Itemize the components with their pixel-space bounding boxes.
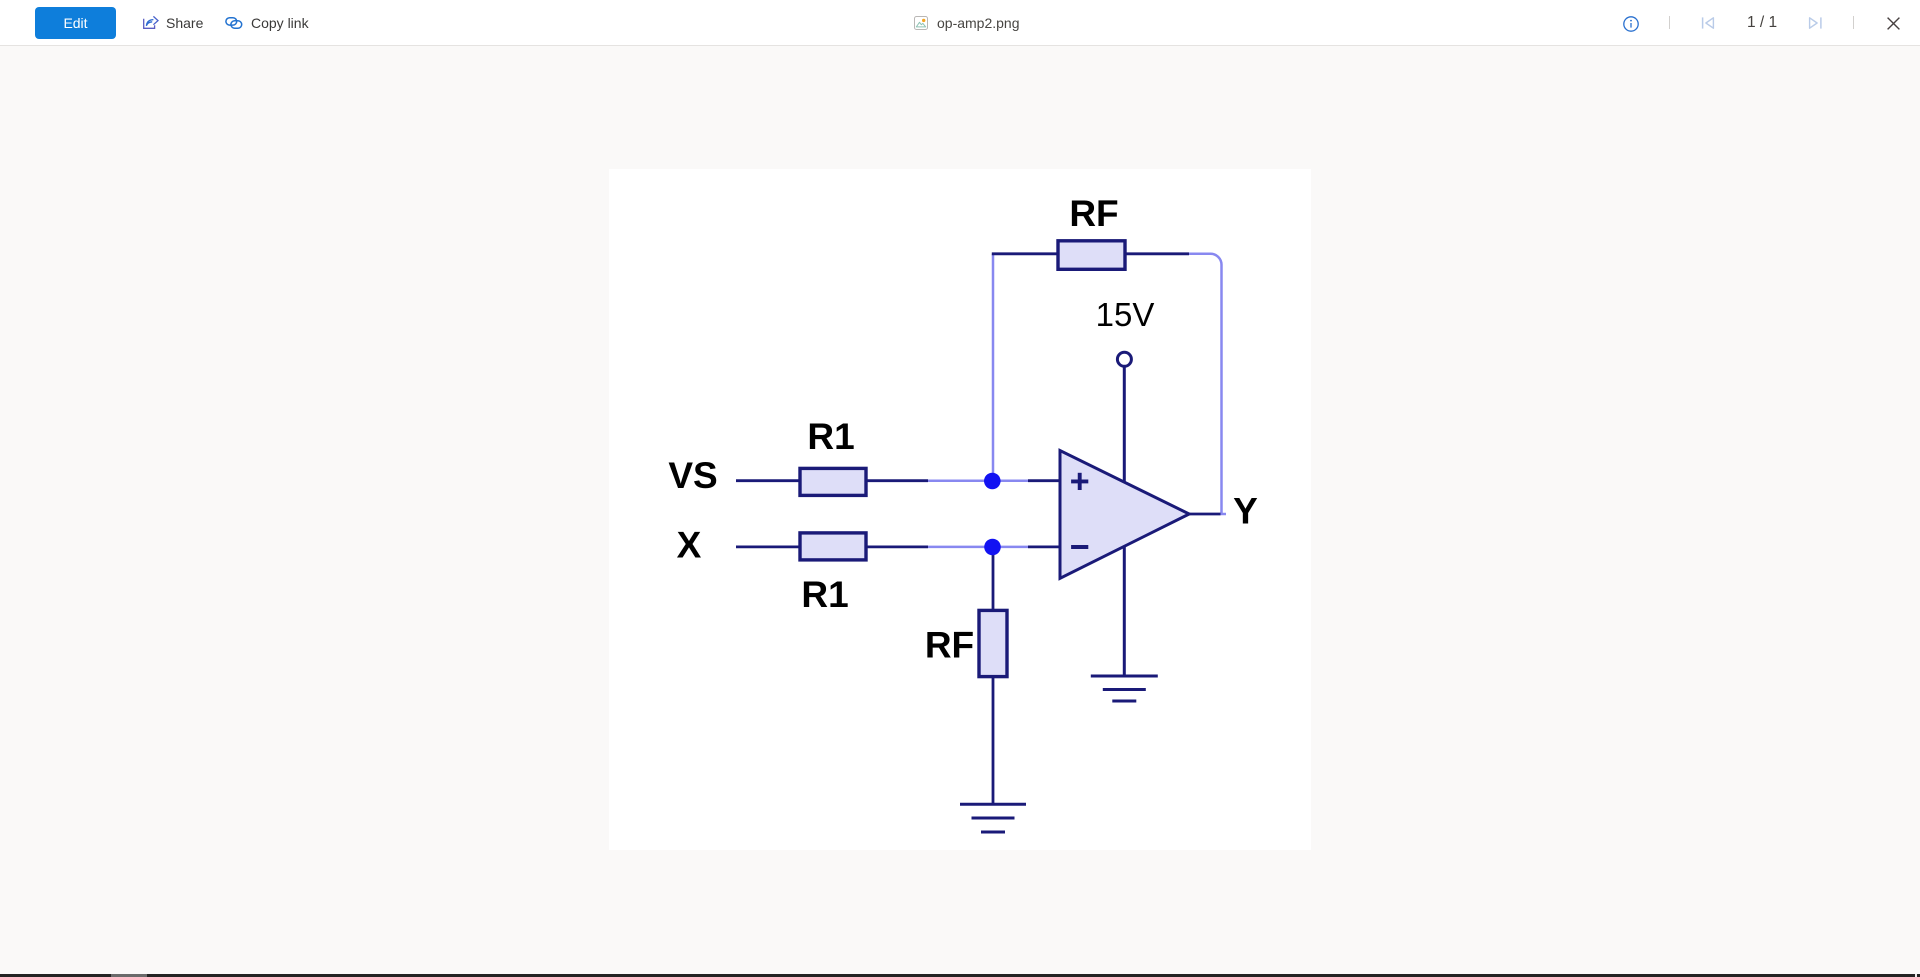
svg-text:R1: R1 xyxy=(807,416,854,457)
svg-text:X: X xyxy=(677,525,702,566)
svg-text:RF: RF xyxy=(925,625,974,666)
svg-text:Y: Y xyxy=(1233,491,1258,532)
svg-text:R1: R1 xyxy=(801,574,848,615)
svg-text:15V: 15V xyxy=(1096,296,1155,333)
svg-text:VS: VS xyxy=(668,455,717,496)
svg-text:RF: RF xyxy=(1069,193,1118,234)
